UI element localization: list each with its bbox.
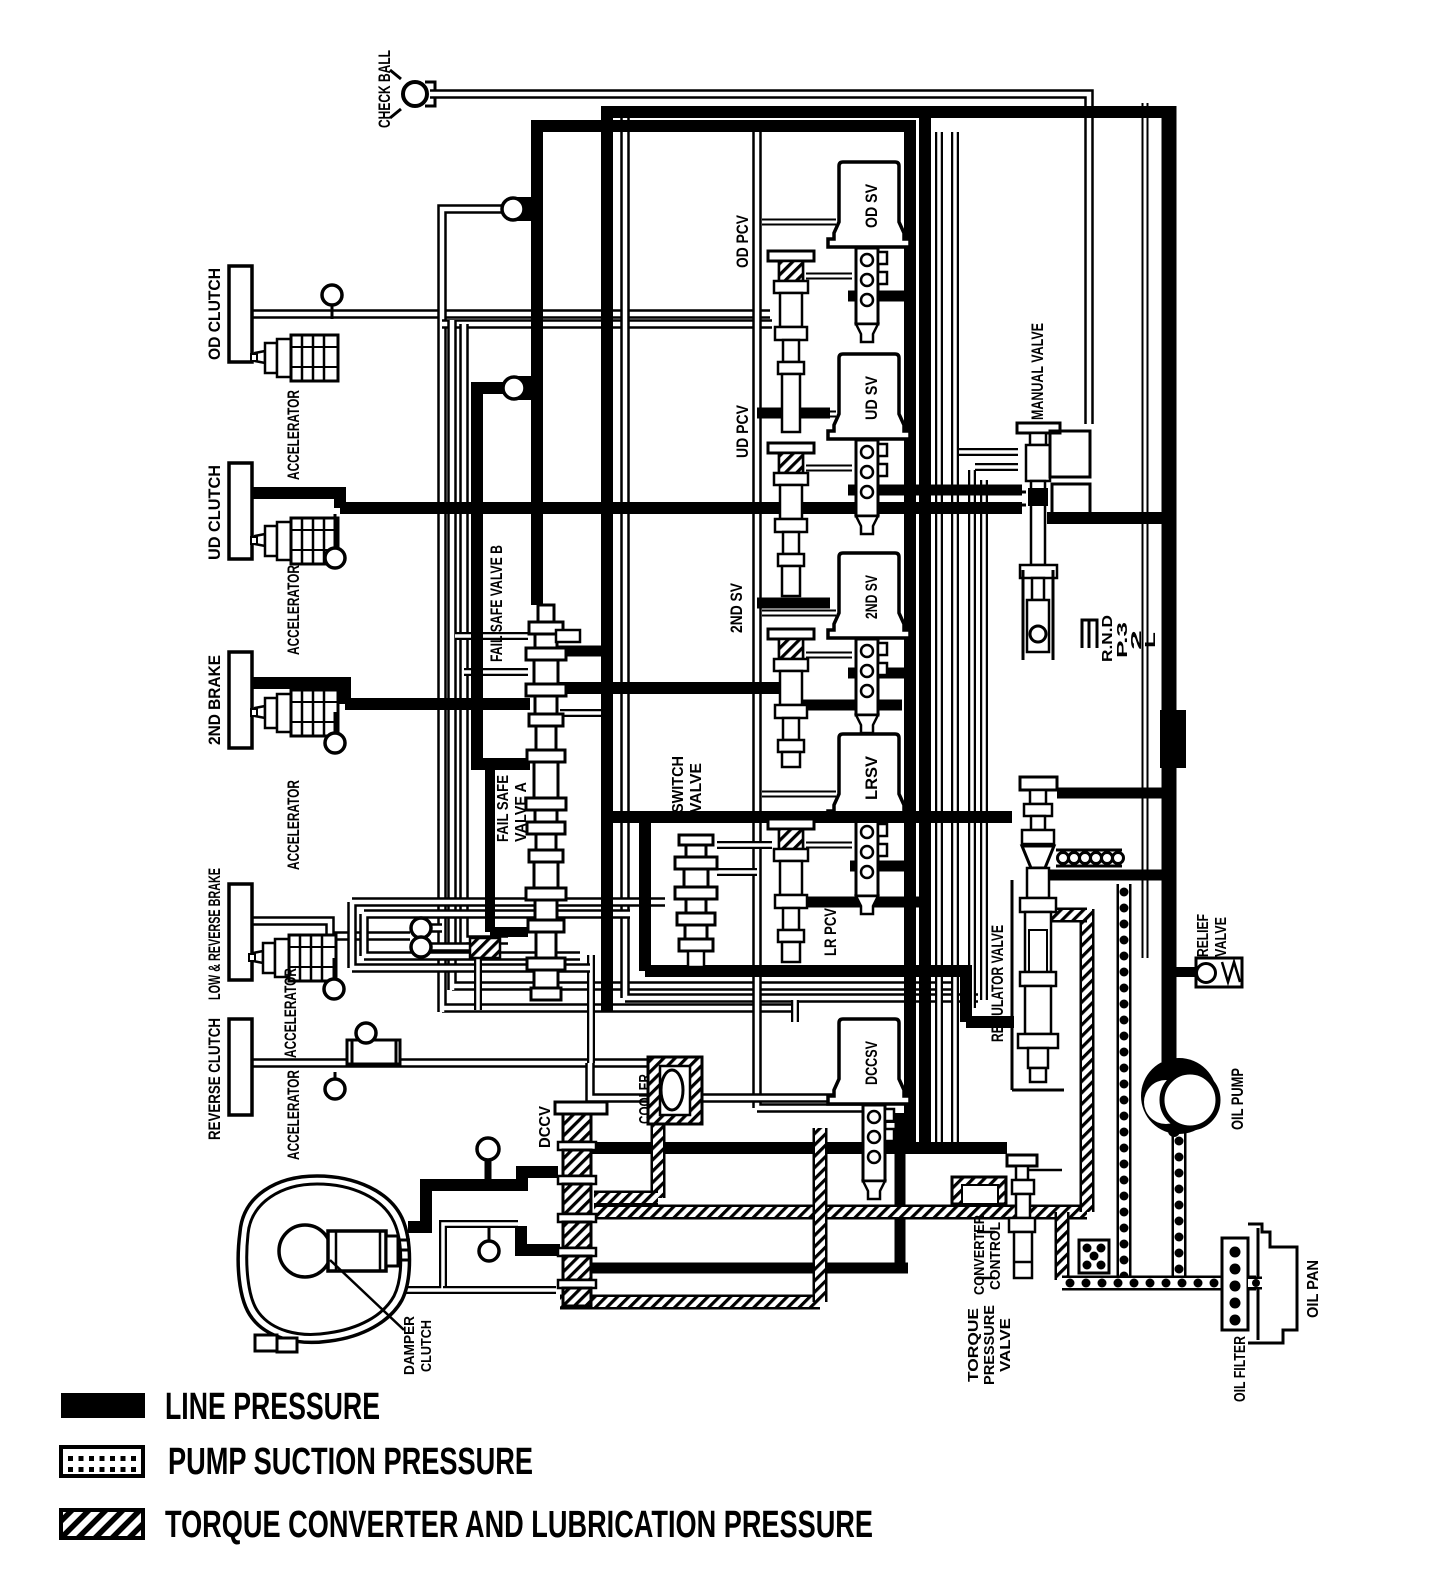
- junction ball 2 on x537: [510, 376, 540, 400]
- wire line pressure vertical x925: [919, 118, 931, 1148]
- svg-text:OIL FILTER: OIL FILTER: [1232, 1336, 1249, 1402]
- solenoid LRSV: [828, 734, 910, 819]
- reverse clutch: [229, 1019, 252, 1115]
- svg-text:VALVE: VALVE: [1213, 917, 1230, 957]
- svg-text:TORQUE: TORQUE: [965, 1308, 982, 1382]
- wire lubrication regulator port: [1052, 908, 1087, 923]
- svg-text:REGULATOR VALVE: REGULATOR VALVE: [988, 925, 1007, 1042]
- low & reverse brake: [229, 884, 252, 980]
- legend line pressure: [61, 1393, 145, 1418]
- accumulator UD: [255, 534, 265, 546]
- wire line pressure fail safe B stub: [558, 646, 613, 657]
- svg-text:VALVE: VALVE: [997, 1318, 1014, 1372]
- wire line pressure LR divider: [780, 897, 928, 908]
- svg-text:ACCELERATOR: ACCELERATOR: [284, 1070, 303, 1160]
- svg-text:CONTROL: CONTROL: [987, 1222, 1004, 1290]
- legend pump suction pressure: [61, 1447, 143, 1476]
- wire line pressure DCCSV stub: [878, 1113, 906, 1123]
- wire lubrication riser x820: [813, 1128, 828, 1302]
- oil pan: [1248, 1224, 1297, 1343]
- svg-text:2ND SV: 2ND SV: [727, 582, 746, 633]
- valve UD PCV: [768, 443, 814, 453]
- damper clutch inner ball: [279, 1225, 331, 1277]
- wire line pressure DCCSV down line: [895, 1120, 906, 1268]
- svg-text:MANUAL VALVE: MANUAL VALVE: [1028, 323, 1047, 420]
- solenoid DCCSV: [828, 1019, 910, 1104]
- svg-text:PRESSURE: PRESSURE: [981, 1305, 998, 1385]
- wire line pressure switch valve bottom line: [645, 971, 1014, 1022]
- 2nd brake: [229, 652, 252, 748]
- junction balls L&R circuit: [411, 918, 431, 938]
- wire line pressure drop to fail safe valve A: [490, 764, 528, 932]
- wire torque converter return pipes: [400, 1224, 518, 1290]
- wire line pressure relief stub: [1169, 967, 1196, 977]
- svg-text:TORQUE CONVERTER AND LUBRICATI: TORQUE CONVERTER AND LUBRICATION PRESSUR…: [165, 1504, 873, 1546]
- svg-text:UD SV: UD SV: [862, 375, 881, 420]
- svg-text:ACCELERATOR: ACCELERATOR: [281, 968, 300, 1058]
- valve 2ND SV: [768, 629, 814, 639]
- shift positions R N D P 2 L: [1082, 620, 1097, 648]
- oil filter stub: [1248, 1277, 1262, 1290]
- solenoid valve body UD SV: [856, 440, 878, 516]
- ball below UD accumulator: [334, 514, 337, 549]
- svg-text:LINE PRESSURE: LINE PRESSURE: [165, 1386, 380, 1428]
- wire line pressure right bus widened segment: [1160, 710, 1186, 768]
- svg-text:REVERSE CLUTCH: REVERSE CLUTCH: [205, 1018, 224, 1140]
- manual valve detent: [1023, 570, 1053, 660]
- svg-text:DCCV: DCCV: [537, 1106, 554, 1148]
- OD clutch: [229, 266, 252, 362]
- turbine: [328, 1231, 386, 1271]
- svg-text:RELIEF: RELIEF: [1195, 914, 1212, 957]
- svg-text:SWITCH: SWITCH: [670, 756, 687, 813]
- wire lubrication pipe DCCV to right riser: [594, 1205, 1087, 1220]
- wire line pressure 2nd brake line: [251, 683, 530, 704]
- wire pipe y324: [442, 319, 772, 329]
- converter control valve: [1007, 1155, 1037, 1166]
- solenoid UD SV: [828, 354, 910, 439]
- wire OD clutch pipe: [251, 309, 770, 319]
- wire line pressure manual valve right line: [1047, 512, 1169, 524]
- wire line pressure vertical x537: [531, 120, 543, 605]
- svg-text:LOW & REVERSE BRAKE: LOW & REVERSE BRAKE: [205, 868, 224, 1000]
- wire switch valve pipes: [717, 841, 772, 849]
- svg-text:L: L: [1142, 632, 1159, 648]
- oil filter: [1222, 1238, 1248, 1330]
- solenoid valve body LRSV: [856, 820, 878, 896]
- solenoid valve body DCCSV: [863, 1105, 885, 1181]
- accumulator OD: [255, 351, 265, 363]
- svg-text:DCCSV: DCCSV: [862, 1041, 881, 1085]
- wire line pressure DCCV left mid: [521, 1226, 560, 1256]
- wire fail safe valve B right pipe: [560, 709, 604, 717]
- wire line pressure DCCV right out y1268: [570, 1263, 908, 1274]
- wire line pressure divider OD/UD: [757, 408, 830, 419]
- svg-text:CONVERTER: CONVERTER: [971, 1215, 988, 1295]
- wire suction pipe under oil pump: [1172, 1133, 1187, 1283]
- torque converter: [238, 1176, 409, 1342]
- wire solenoid bank elbows: [762, 219, 836, 226]
- svg-text:CHECK BALL: CHECK BALL: [375, 50, 394, 128]
- converter feet: [255, 1335, 277, 1351]
- wire line pressure x607 branch down: [639, 817, 651, 971]
- svg-text:OD SV: OD SV: [862, 183, 881, 228]
- regulator spring: [1056, 850, 1122, 866]
- wire pipe x452 to regulator: [452, 320, 958, 990]
- fail safe valve A hatched block: [470, 938, 500, 958]
- wire fail safe valve B left port pipes: [455, 632, 528, 640]
- wire line pressure top right loop: [607, 106, 1169, 118]
- wire line pressure 2nd solenoid stub: [848, 668, 916, 679]
- wire line pressure vertical x607: [601, 106, 613, 1012]
- wire UD PCV frame pipe: [757, 132, 862, 1108]
- regulator funnel: [1022, 846, 1054, 868]
- wire suction strainer box: [1079, 1240, 1109, 1273]
- wire L&R junction loop outer: [352, 902, 665, 968]
- wire DCCSV feed pipe: [791, 1000, 799, 1022]
- check ball: [390, 70, 401, 118]
- wire suction pipe bottom horizontal: [1062, 1276, 1256, 1291]
- wire line pressure divider 2ND/LR: [779, 700, 902, 711]
- accumulator L&R: [253, 951, 263, 963]
- wire line pressure LR PCV line restore: [826, 811, 912, 823]
- solenoid valve body OD SV: [856, 248, 878, 324]
- wire line pressure converter to DCCV: [408, 1172, 558, 1227]
- UD clutch: [229, 463, 252, 559]
- ball below 2ND accumulator: [334, 712, 337, 734]
- ball above converter line: [477, 1138, 499, 1160]
- accumulator 2ND: [255, 706, 265, 718]
- oil pump: [1141, 1058, 1217, 1134]
- damper clutch label: [330, 1260, 404, 1330]
- svg-text:OD CLUTCH: OD CLUTCH: [205, 268, 224, 360]
- svg-text:ACCELERATOR: ACCELERATOR: [284, 565, 303, 655]
- wire line pressure ball2 branch to fail safe valves: [471, 388, 530, 764]
- wire lubrication bottom line: [560, 1295, 820, 1310]
- svg-text:PUMP SUCTION PRESSURE: PUMP SUCTION PRESSURE: [168, 1441, 533, 1483]
- svg-text:OIL PAN: OIL PAN: [1305, 1260, 1322, 1318]
- svg-text:2ND BRAKE: 2ND BRAKE: [205, 655, 224, 745]
- ball below L&R accumulator: [333, 958, 336, 980]
- wire pipe x625 from top to regulator: [625, 118, 978, 998]
- wire thin pipe x1145 from top frame down to relief valve: [1142, 103, 1149, 958]
- wire L&R junction outlet pipes: [429, 923, 442, 933]
- svg-text:2ND SV: 2ND SV: [862, 575, 881, 619]
- wire L&R brake pipe: [251, 921, 410, 936]
- wire line pressure ball stem y1185: [485, 1158, 492, 1182]
- wire ball junction pipe x442: [442, 209, 798, 1012]
- solenoid valve body 2ND SV: [856, 639, 878, 715]
- wire suction pipe oil pan to pump riser: [1117, 884, 1132, 1283]
- ball below reverse pipe: [334, 1072, 337, 1080]
- svg-text:UD PCV: UD PCV: [733, 404, 752, 458]
- ball above OD pipe: [331, 302, 334, 319]
- svg-text:VALVE: VALVE: [688, 763, 705, 813]
- wire line pressure LR solenoid stub: [850, 861, 912, 872]
- accumulator reverse clutch: [347, 1040, 400, 1064]
- wire lubrication converter control block: [952, 1177, 1006, 1204]
- wire manual valve left pipes: [957, 448, 1018, 456]
- wire line pressure fail safe B to 2nd PCV: [558, 682, 782, 694]
- svg-text:OD PCV: OD PCV: [733, 214, 752, 268]
- wire line pressure regulator mid line: [1050, 870, 1169, 881]
- solenoid OD SV: [828, 162, 910, 247]
- legend torque converter and lubrication pressure: [61, 1510, 143, 1538]
- valve LR PCV: [768, 819, 814, 829]
- wire pipe x464 to fail safe valve A: [464, 324, 508, 944]
- svg-text:ACCELERATOR: ACCELERATOR: [284, 390, 303, 480]
- svg-text:OIL PUMP: OIL PUMP: [1228, 1068, 1247, 1130]
- wire line pressure second top line: [537, 126, 910, 1148]
- svg-text:UD CLUTCH: UD CLUTCH: [205, 465, 224, 560]
- svg-text:FAIL SAFE: FAIL SAFE: [495, 775, 512, 842]
- ball under converter return pipe: [488, 1228, 491, 1242]
- wire lubrication drop to converter control: [1055, 1212, 1070, 1280]
- junction ball 1 on x537: [510, 197, 540, 221]
- wire line pressure DCCV out right: [575, 1142, 1007, 1154]
- wire L&R junction loop inner: [364, 914, 630, 956]
- svg-text:LRSV: LRSV: [862, 755, 881, 800]
- wire lubrication riser x1087: [1080, 909, 1095, 1212]
- wire line pressure UD solenoid line: [848, 485, 1022, 496]
- svg-text:DAMPER: DAMPER: [401, 1316, 418, 1375]
- solenoid 2ND SV: [828, 553, 910, 638]
- svg-text:LR PCV: LR PCV: [821, 907, 840, 956]
- svg-text:ACCELERATOR: ACCELERATOR: [284, 780, 303, 870]
- wire line pressure divider UD/2ND: [757, 598, 830, 609]
- svg-text:CLUTCH: CLUTCH: [418, 1320, 435, 1372]
- valve OD PCV: [768, 251, 814, 261]
- wire line pressure LR PCV line to regulator: [607, 811, 1012, 823]
- wire reverse clutch pipe: [251, 1058, 648, 1068]
- svg-text:FAIL SAFE VALVE B: FAIL SAFE VALVE B: [487, 545, 506, 662]
- wire line pressure OD solenoid stub: [848, 291, 916, 302]
- wire check ball pipe to manual valve: [430, 94, 1089, 424]
- wire line pressure UD clutch line: [251, 493, 1022, 508]
- wire line pressure regulator top line: [1057, 788, 1169, 799]
- wire right bundle thin pipes x939 x955: [935, 132, 943, 1145]
- wire lubrication cooler drop: [651, 1120, 666, 1198]
